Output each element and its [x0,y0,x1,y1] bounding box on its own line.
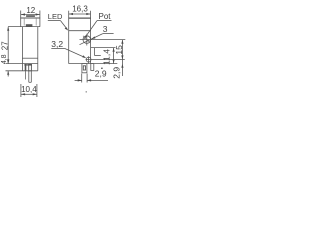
dimension 10,4 extension lines [21,84,37,97]
dimension text 2,9 pin [95,69,107,79]
dimension text 2,9 right rotated [111,67,121,79]
side view pin with hole [82,64,87,73]
side view back face [90,18,92,64]
svg-text:3,2: 3,2 [51,39,63,49]
lower hole centerline to dims [86,59,125,61]
label 3,2 underline [51,47,64,49]
side view front face [68,18,70,64]
dimension text 12 [26,6,35,15]
dimension 15 line with arrows [121,40,123,76]
label LED [48,12,63,21]
dimension 12 line with arrows [21,13,40,15]
dimension text 27 rotated [0,41,9,50]
svg-text:27: 27 [0,41,9,50]
lens window sides [24,18,36,25]
dimension text 16,3 [72,5,88,14]
svg-text:2,9: 2,9 [95,69,107,79]
svg-text:Pot: Pot [99,12,112,21]
side view bottom with 11,4 extension [69,63,118,65]
pin tail thin [25,71,27,80]
label 3 leader arrow [80,34,103,45]
pot adjustment hole circle [83,36,91,44]
svg-text:10,4: 10,4 [21,85,37,94]
svg-text:11,4: 11,4 [101,49,111,65]
housing sides front view [22,27,37,64]
svg-text:4,8: 4,8 [1,54,8,64]
svg-text:12: 12 [26,6,35,15]
svg-text:2,9: 2,9 [111,67,121,79]
pot hole centerline to dims [80,39,126,41]
pin contacts inside section [25,64,32,71]
dimension 11,4 line with arrows [113,48,115,64]
lower hole circle [86,57,91,62]
main pin front view [29,71,32,83]
label 3,2 [51,39,63,49]
label 3 underline [103,33,114,35]
Pot leader arrow [84,21,97,40]
dimension text 11,4 rotated [101,49,111,65]
svg-text:LED: LED [48,12,63,21]
dimension 27 line with arrows [7,27,9,64]
svg-text:16,3: 16,3 [72,5,88,14]
LED chip dark patch [26,24,33,27]
dimension text 10,4 [21,85,37,94]
bezel bottom and 27 top extension [8,26,40,28]
side view rear pin [91,64,94,71]
label 3,2 leader arrow [65,48,87,58]
svg-text:3: 3 [103,24,108,34]
dimension 2,9 pin line with outside arrows [75,79,108,81]
dimension 16,3 extension lines [69,11,91,18]
housing bottom and 27 bottom extension [6,63,38,65]
dimension 2,9 right arrow [121,64,123,68]
lens cap protrusion [26,15,35,16]
bezel outline [20,18,40,27]
side view internal LED line [69,30,91,32]
housing internal step line [22,57,37,59]
svg-text:15: 15 [114,45,124,55]
side view body top [68,17,91,19]
dimension 16,3 line with arrows [69,13,91,15]
pin header bar inside section [24,64,32,66]
label Pot [99,12,112,21]
LED leader arrow [61,21,69,31]
dimension 4,8 arrows [7,60,9,77]
back protrusion pot body [91,48,116,56]
small artifact dot [86,91,87,92]
LED label underline [48,20,61,22]
lower hole vertical mark [88,56,90,63]
Pot label underline [97,20,112,22]
dimension 2,9 pin extension lines [82,74,87,83]
pot hole cross marks [83,34,91,46]
dimension 12 extension lines [21,11,40,18]
connector section front view [6,64,38,71]
label 3 [103,24,108,34]
dimension 10,4 line with arrows [21,93,37,95]
dimension text 15 rotated [114,45,124,55]
small artifact dot upper [101,68,102,69]
dimension text 4,8 rotated [1,54,8,64]
